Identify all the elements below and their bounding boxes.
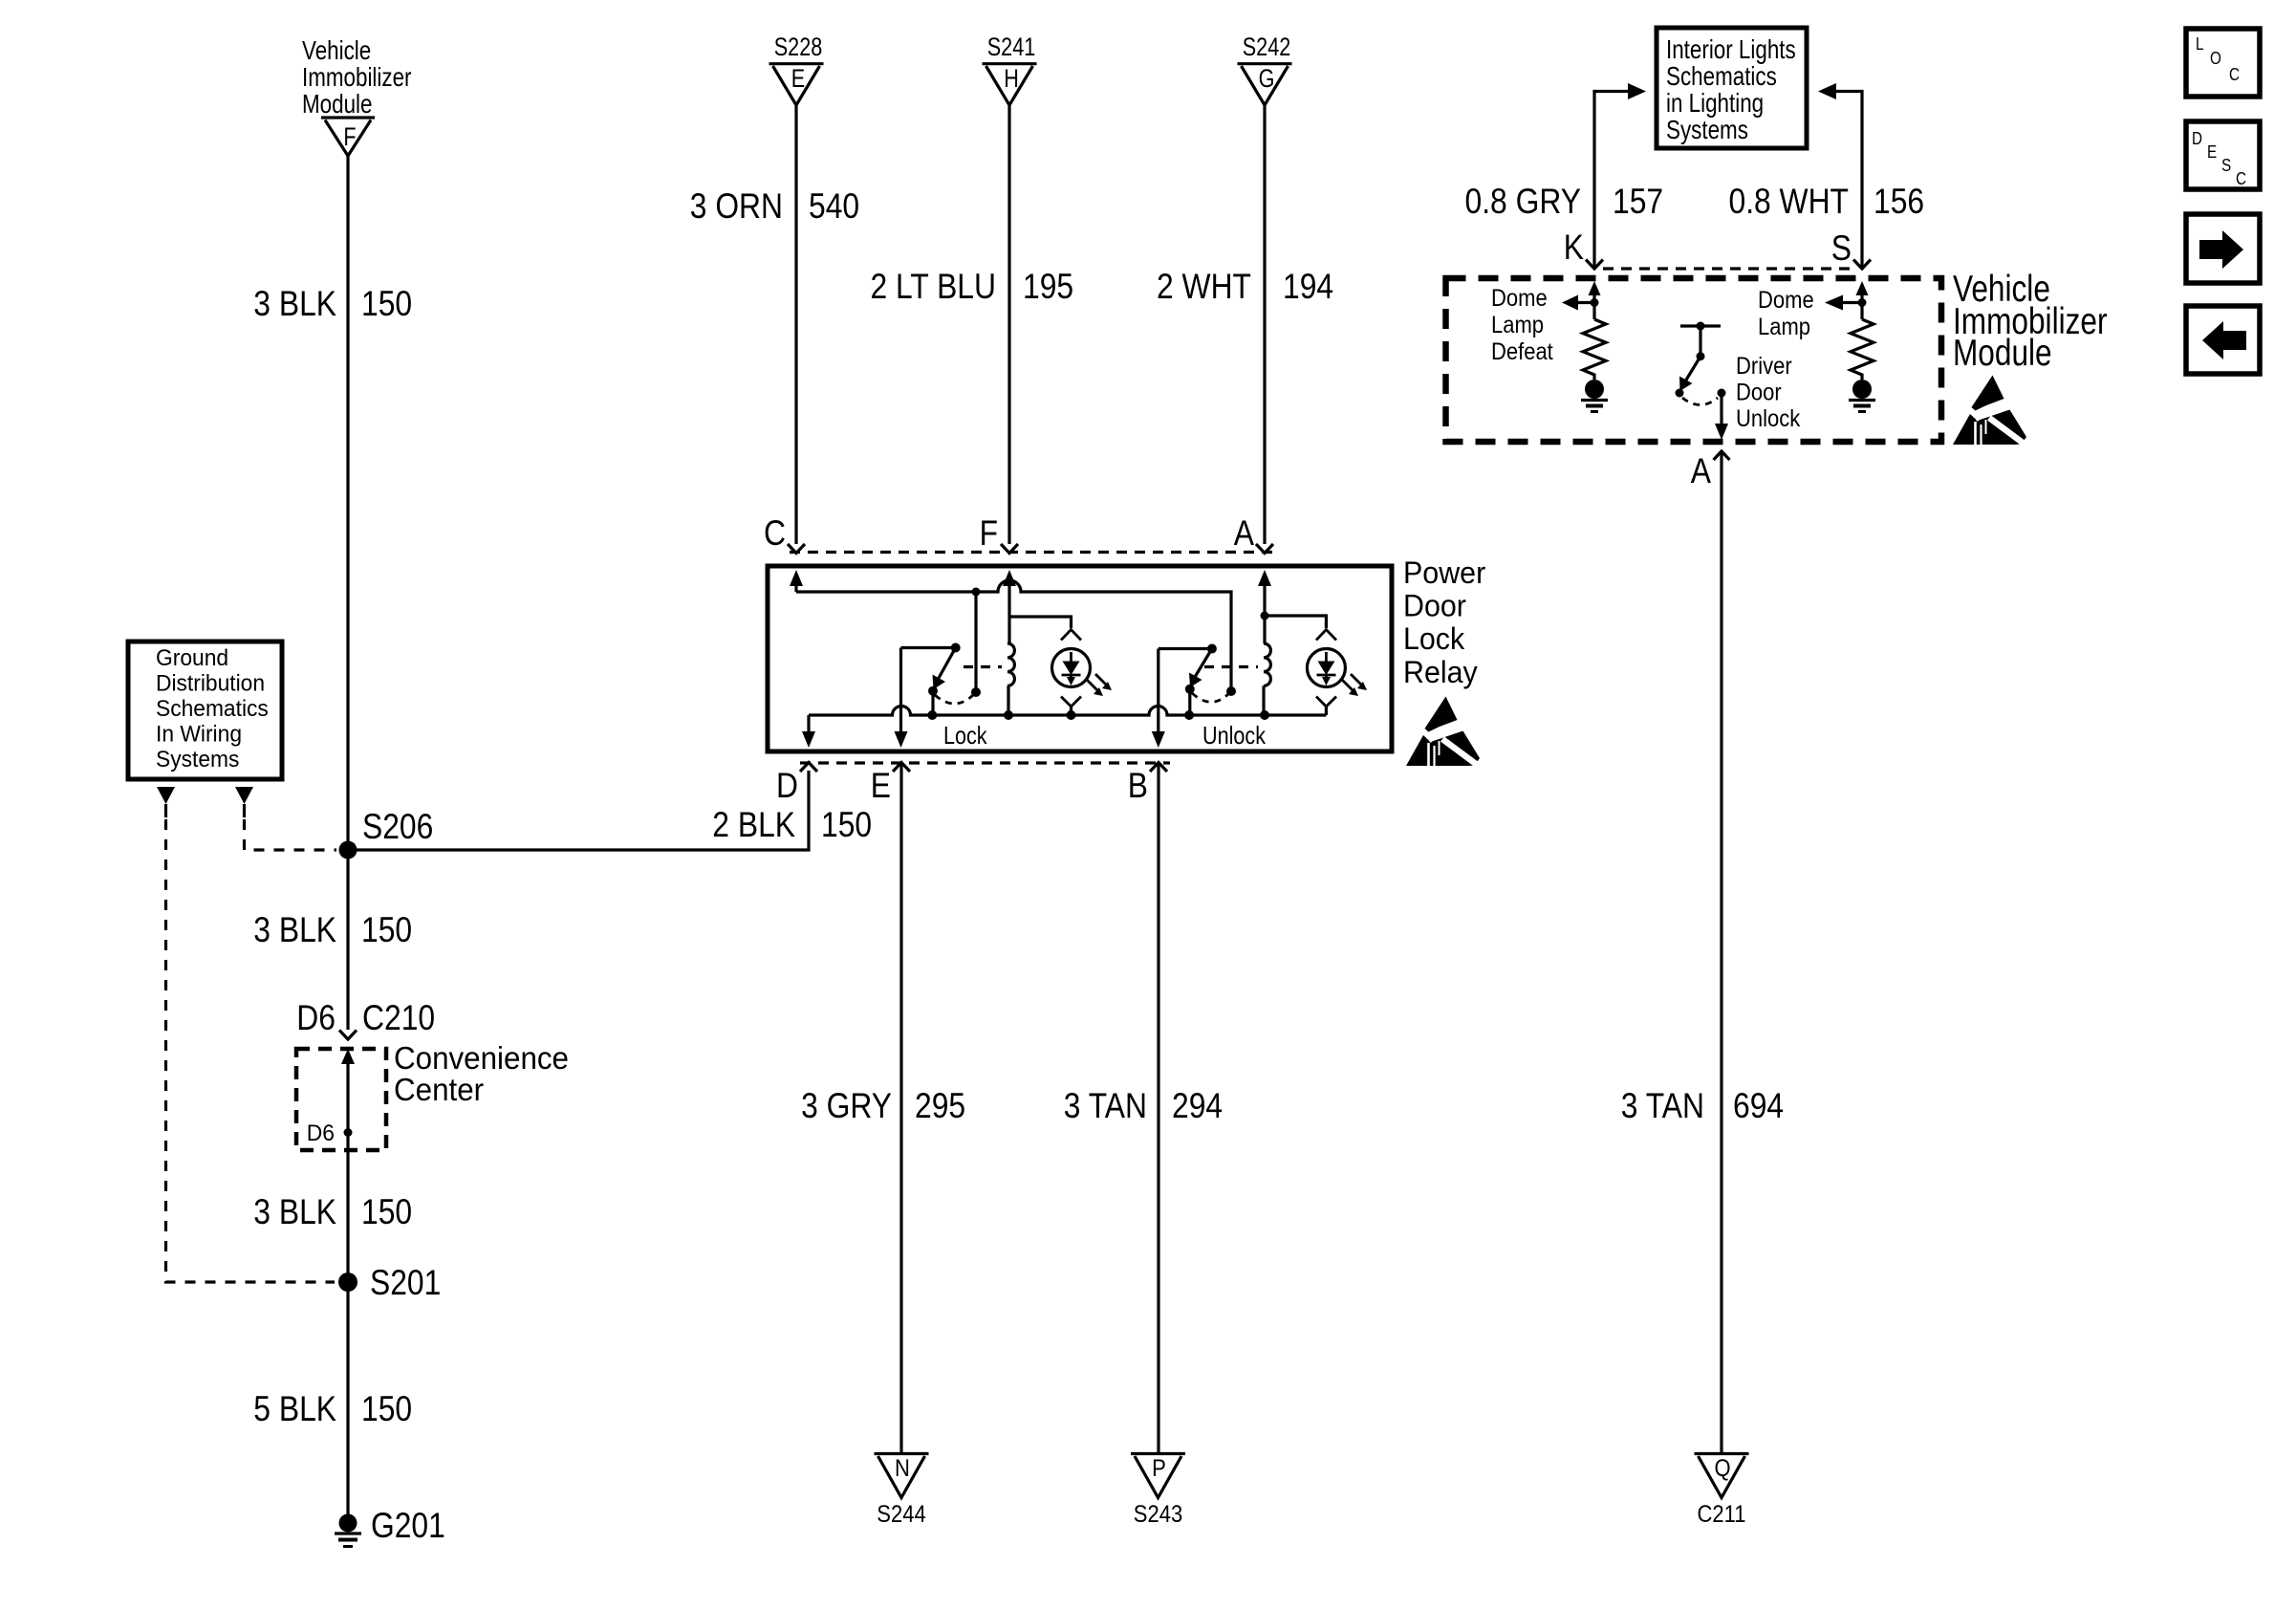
svg-text:3 BLK: 3 BLK <box>253 910 336 949</box>
svg-text:E: E <box>2207 142 2217 162</box>
dome lamp resistor branch (pin S) <box>1758 281 1875 412</box>
svg-text:Lamp: Lamp <box>1491 312 1544 338</box>
wire branch F to lock LED <box>1009 617 1072 628</box>
svg-text:E: E <box>871 766 891 805</box>
svg-text:150: 150 <box>821 805 872 844</box>
svg-text:Schematics: Schematics <box>1666 61 1777 91</box>
arrow into Convenience Center <box>341 1049 355 1064</box>
svg-text:694: 694 <box>1733 1086 1784 1125</box>
LED indicator (Unlock) <box>1307 630 1367 716</box>
Vehicle Immobilizer Module dashed box <box>1446 278 1942 442</box>
svg-text:Ground: Ground <box>156 645 228 671</box>
pin S <box>1831 228 1871 269</box>
connector triangle P (S243) <box>1131 1454 1185 1529</box>
node on top rail (lock contact branch) <box>972 588 981 597</box>
wire 0.8 WHT 156 (S to Interior Lights box) with left arrow <box>1836 92 1862 269</box>
svg-text:D6: D6 <box>296 998 336 1037</box>
wire 3 BLK 150 (from F down to S206) <box>346 156 349 849</box>
wire branch A to unlock LED <box>1265 616 1326 628</box>
connector triangle F <box>321 118 375 156</box>
wire C internal with up arrow <box>790 570 803 586</box>
wire lock middle contact <box>974 592 977 692</box>
svg-text:Distribution: Distribution <box>156 671 265 697</box>
ESD symbol (relay) <box>1406 697 1480 767</box>
svg-text:0.8 WHT: 0.8 WHT <box>1729 182 1850 221</box>
node D6 (dot inside Convenience Center) <box>344 1128 353 1137</box>
label Vehicle Immobilizer Module (top left) <box>302 35 412 119</box>
icon box DESC <box>2186 121 2260 189</box>
resistor (dome lamp) <box>1851 319 1874 380</box>
wire F internal with up arrow <box>1003 570 1016 586</box>
svg-text:157: 157 <box>1613 182 1663 221</box>
ground (dome lamp) <box>1852 380 1872 399</box>
ground reference arrow (right, filled triangle) <box>235 787 253 804</box>
dashed wire from right reference arrow to S206 <box>243 804 246 817</box>
svg-text:150: 150 <box>361 1192 412 1231</box>
svg-text:D6: D6 <box>307 1120 335 1146</box>
label 3 BLK 150 (upper) <box>253 284 412 323</box>
svg-text:3 BLK: 3 BLK <box>253 1192 336 1231</box>
svg-text:Immobilizer: Immobilizer <box>302 62 412 92</box>
relay connector dashed line (bottom pins D E B) <box>800 761 1170 764</box>
ESD symbol (module) <box>1953 376 2026 446</box>
svg-text:194: 194 <box>1283 267 1333 306</box>
svg-text:Systems: Systems <box>156 747 239 772</box>
svg-text:F: F <box>343 122 356 151</box>
node lock contact on rail <box>927 710 937 720</box>
svg-text:5 BLK: 5 BLK <box>253 1389 336 1428</box>
svg-text:A: A <box>1691 451 1711 490</box>
svg-text:Door: Door <box>1736 380 1782 406</box>
Convenience Center dashed box <box>296 1040 569 1150</box>
svg-text:S228: S228 <box>774 33 823 61</box>
wire B internal (unlock switch to pin B) <box>1157 649 1159 733</box>
svg-text:295: 295 <box>915 1086 965 1125</box>
icon box left-arrow <box>2186 306 2260 374</box>
svg-text:S242: S242 <box>1243 33 1291 61</box>
svg-text:B: B <box>1128 766 1148 805</box>
svg-text:O: O <box>2210 49 2221 68</box>
svg-text:2 WHT: 2 WHT <box>1157 267 1251 306</box>
box Ground Distribution Schematics In Wiring Systems <box>128 642 282 779</box>
splice S206 <box>339 841 357 859</box>
svg-text:In Wiring: In Wiring <box>156 722 242 748</box>
wire 3 BLK 150 (S206 down to C210) <box>346 850 349 1030</box>
svg-text:S: S <box>1831 228 1852 268</box>
svg-text:Lock: Lock <box>943 721 987 750</box>
relay coil (Lock) <box>1007 616 1014 715</box>
svg-text:3 BLK: 3 BLK <box>253 284 336 323</box>
wire 5 BLK 150 (S201 to G201) <box>346 1282 349 1515</box>
svg-text:Interior Lights: Interior Lights <box>1666 34 1796 64</box>
svg-text:3 TAN: 3 TAN <box>1621 1086 1704 1125</box>
wire 2 BLK 150 (S206 to relay pin D) <box>348 771 809 850</box>
svg-text:150: 150 <box>361 1389 412 1428</box>
node lock coil on rail <box>1004 710 1013 720</box>
icon box right-arrow <box>2186 214 2260 283</box>
dashed wire from left reference arrow to S201 <box>164 804 167 817</box>
svg-text:D: D <box>776 766 798 805</box>
svg-text:Q: Q <box>1714 1455 1730 1482</box>
svg-text:195: 195 <box>1023 267 1073 306</box>
svg-text:C: C <box>2236 169 2246 188</box>
connector triangle G (S242) <box>1238 33 1292 105</box>
pin A (module bottom) <box>1691 451 1730 490</box>
svg-text:S201: S201 <box>370 1263 441 1302</box>
svg-text:3 TAN: 3 TAN <box>1064 1086 1147 1125</box>
svg-text:0.8 GRY: 0.8 GRY <box>1465 182 1582 221</box>
wire inside Convenience Center down to S201 <box>346 1062 349 1282</box>
svg-text:C210: C210 <box>362 998 435 1037</box>
svg-text:Relay: Relay <box>1403 655 1478 689</box>
svg-text:Systems: Systems <box>1666 115 1748 144</box>
wire 2 WHT 194 (S242 to relay pin A) <box>1263 105 1266 544</box>
wire A internal with up arrow <box>1258 570 1271 586</box>
node lock LED on rail <box>1067 710 1076 720</box>
svg-text:G: G <box>1259 64 1275 93</box>
node unlock coil on rail <box>1260 710 1269 720</box>
wire 3 TAN 694 (pin A to C211) <box>1720 452 1722 1452</box>
pin F <box>980 513 1018 554</box>
dome lamp defeat resistor branch (pin K) <box>1491 281 1608 412</box>
svg-text:Unlock: Unlock <box>1736 405 1801 432</box>
wire D internal (rail to pin D) <box>807 715 810 732</box>
connector triangle E (S228) <box>769 33 824 105</box>
svg-text:Module: Module <box>302 89 373 119</box>
pin K <box>1564 228 1603 269</box>
pin B <box>1128 763 1167 806</box>
svg-text:Schematics: Schematics <box>156 696 269 722</box>
wire 2 LT BLU 195 (S241 to relay pin F) <box>1007 105 1010 544</box>
svg-text:L: L <box>2196 34 2204 54</box>
unlock switch <box>1159 644 1258 716</box>
svg-text:Dome: Dome <box>1758 287 1814 314</box>
svg-text:D: D <box>2192 129 2202 148</box>
pin C <box>764 513 805 554</box>
svg-text:Dome: Dome <box>1491 285 1548 312</box>
driver door unlock switch <box>1676 322 1801 441</box>
svg-text:S: S <box>2221 156 2231 175</box>
svg-text:E: E <box>791 64 805 93</box>
svg-text:Lock: Lock <box>1403 621 1465 656</box>
relay connector dashed line (top pins C F A) <box>790 551 1275 554</box>
splice S201 <box>338 1273 357 1292</box>
svg-text:Door: Door <box>1403 589 1466 623</box>
svg-text:Module: Module <box>1953 333 2052 374</box>
bottom rail inside relay with hops over E and B wires <box>809 707 1326 716</box>
svg-text:150: 150 <box>361 910 412 949</box>
wire 3 TAN 294 (pin B to S243) <box>1157 763 1159 1452</box>
relay coil (Unlock) <box>1264 616 1270 715</box>
ground (dome lamp defeat) <box>1585 380 1604 399</box>
node unlock contact on rail <box>1184 710 1194 720</box>
label 3 BLK 150 (below Convenience Center) <box>253 1192 412 1231</box>
label Vehicle Immobilizer Module (right) <box>1953 269 2108 374</box>
svg-text:2 LT BLU: 2 LT BLU <box>871 267 997 306</box>
svg-text:Defeat: Defeat <box>1491 338 1553 365</box>
pin A <box>1234 513 1273 554</box>
svg-text:C: C <box>2229 65 2240 84</box>
lock switch <box>901 643 1003 716</box>
svg-text:Driver: Driver <box>1736 353 1792 380</box>
svg-text:Lamp: Lamp <box>1758 314 1810 340</box>
svg-text:S243: S243 <box>1134 1501 1182 1528</box>
svg-text:3 GRY: 3 GRY <box>801 1086 892 1125</box>
svg-text:150: 150 <box>361 284 412 323</box>
pin E <box>871 763 910 806</box>
svg-text:Unlock: Unlock <box>1202 721 1267 750</box>
ground reference arrow (left, filled triangle) <box>157 787 175 804</box>
box Interior Lights Schematics in Lighting Systems <box>1657 28 1807 148</box>
svg-text:3 ORN: 3 ORN <box>690 186 783 226</box>
connector triangle N (S244) <box>875 1454 929 1529</box>
svg-text:S244: S244 <box>877 1501 925 1528</box>
svg-text:P: P <box>1152 1455 1166 1482</box>
svg-text:Vehicle: Vehicle <box>302 35 371 65</box>
Power Door Lock Relay box <box>768 566 1392 751</box>
svg-text:C211: C211 <box>1698 1501 1746 1528</box>
icon box LOC <box>2186 29 2260 97</box>
svg-text:H: H <box>1004 64 1019 93</box>
svg-text:Power: Power <box>1403 555 1486 590</box>
svg-text:156: 156 <box>1874 182 1924 221</box>
connector triangle H (S241) <box>983 33 1037 105</box>
resistor (dome lamp defeat) <box>1583 319 1606 380</box>
node unlock middle contact <box>1226 686 1236 696</box>
svg-text:2 BLK: 2 BLK <box>712 805 795 844</box>
wire E internal (lock switch to pin E) <box>899 648 902 733</box>
svg-text:in Lighting: in Lighting <box>1666 88 1764 118</box>
svg-text:Center: Center <box>394 1072 484 1107</box>
svg-text:G201: G201 <box>371 1506 445 1545</box>
svg-text:F: F <box>980 513 998 553</box>
svg-text:Convenience: Convenience <box>394 1040 569 1076</box>
svg-text:S206: S206 <box>362 807 433 846</box>
wire internal top rail (C to unlock contact) with hop over F wire <box>796 580 1231 691</box>
connector C210 pin D6 <box>296 998 435 1039</box>
svg-text:A: A <box>1234 513 1254 553</box>
svg-text:294: 294 <box>1172 1086 1223 1125</box>
module connector dashed line (pins K S) <box>1603 267 1853 270</box>
svg-text:540: 540 <box>809 186 859 226</box>
svg-text:K: K <box>1564 228 1584 267</box>
wire 3 GRY 295 (pin E to S244) <box>899 763 902 1452</box>
pin D <box>776 763 817 806</box>
svg-text:N: N <box>895 1455 910 1482</box>
ground G201 <box>335 1506 445 1547</box>
wire 3 ORN 540 (S228 to relay pin C) <box>794 105 797 544</box>
connector triangle Q (C211) <box>1695 1454 1749 1529</box>
svg-text:C: C <box>764 513 786 553</box>
svg-text:S241: S241 <box>987 33 1036 61</box>
wire 0.8 GRY 157 (K to Interior Lights box) with right arrow <box>1594 92 1628 269</box>
LED indicator (Lock) <box>1052 630 1113 716</box>
